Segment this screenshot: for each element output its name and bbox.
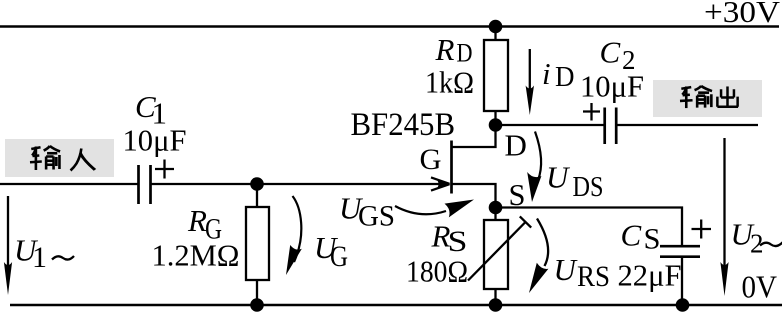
hanzi: chu (output) — [717, 86, 738, 106]
node: RG bottom at 0V rail — [250, 298, 264, 312]
svg-text:R: R — [187, 203, 207, 238]
svg-text:D: D — [555, 61, 575, 93]
svg-text:D: D — [457, 39, 473, 68]
svg-text:BF245B: BF245B — [351, 107, 456, 143]
svg-text:10μF: 10μF — [580, 69, 644, 104]
svg-text:i: i — [542, 56, 551, 91]
svg-text:S: S — [644, 223, 661, 256]
CS polarity plus sign — [692, 220, 712, 239]
label U2~ — [731, 217, 782, 259]
label UGS — [339, 191, 395, 233]
svg-text:22μF: 22μF — [618, 258, 682, 293]
label CS — [621, 218, 661, 256]
label C2 — [600, 35, 636, 76]
svg-text:180Ω: 180Ω — [406, 254, 468, 289]
svg-text:RS: RS — [577, 260, 610, 293]
label box: input terminal — [5, 139, 114, 177]
svg-text:C: C — [621, 218, 642, 253]
label URS — [554, 252, 611, 293]
svg-text:S: S — [509, 177, 526, 212]
wire: RS top lead — [494, 208, 496, 221]
svg-text:1: 1 — [32, 241, 47, 274]
svg-text:U: U — [546, 160, 571, 195]
label UG — [314, 230, 348, 273]
wire: C1 to gate of JFET — [151, 183, 448, 185]
arrow UGS arc — [395, 200, 474, 218]
svg-text:C: C — [600, 35, 621, 70]
wire: CS bottom lead — [681, 257, 683, 305]
svg-text:0V: 0V — [742, 269, 778, 305]
transistor Q1 BF245B channel bar — [450, 141, 453, 194]
wire: drain lead of Q1 — [452, 124, 496, 147]
label C1 — [135, 89, 167, 131]
label iD — [542, 56, 575, 93]
C1 polarity plus sign — [155, 160, 174, 179]
arrow URS arc — [529, 219, 548, 294]
wire: RD bottom lead — [494, 111, 496, 125]
label U1~ — [14, 233, 74, 275]
wire: RD top lead — [494, 27, 496, 41]
svg-text:U: U — [554, 252, 579, 287]
node: RS bottom at 0V rail — [489, 298, 503, 312]
wire: input line from left edge to C1 — [0, 183, 139, 185]
gate arrowhead into channel — [431, 177, 451, 190]
hanzi: ru (input) — [71, 149, 97, 171]
RS trimmer diagonal stroke — [468, 222, 526, 281]
wire: C2 to output terminal — [616, 124, 758, 126]
label RD — [435, 32, 473, 68]
capacitor C1 plates — [139, 165, 151, 204]
node: gate wire / RG top junction — [250, 177, 264, 191]
svg-text:10μF: 10μF — [123, 123, 187, 158]
wire: RS bottom lead — [494, 289, 496, 305]
arrow UG arc — [286, 196, 302, 275]
arrow U2 output voltage — [720, 138, 728, 296]
capacitor C2 plates — [605, 108, 617, 145]
svg-text:1kΩ: 1kΩ — [425, 65, 474, 100]
svg-text:GS: GS — [358, 200, 395, 233]
svg-text:R: R — [435, 32, 455, 67]
wire: RG top lead — [256, 184, 258, 207]
wire: RG bottom lead — [256, 280, 258, 305]
svg-text:1.2MΩ: 1.2MΩ — [152, 238, 240, 273]
wire: 0V bottom rail — [10, 304, 782, 307]
svg-text:G: G — [420, 143, 442, 176]
label RG — [187, 203, 222, 246]
node: drain node — [489, 118, 503, 132]
arrow UDS arc — [527, 132, 541, 203]
resistor RS body (adjustable) — [484, 220, 508, 289]
label box: output terminal — [653, 80, 762, 117]
arrow U1 input voltage — [4, 196, 12, 295]
wire: source lead of Q1 — [452, 184, 496, 208]
svg-text:DS: DS — [573, 171, 604, 203]
svg-text:D: D — [505, 128, 527, 163]
node: source node — [489, 201, 503, 215]
svg-text:+30V: +30V — [704, 0, 781, 29]
wire: drain to C2 output wire — [496, 124, 604, 126]
hanzi: shu (output) — [680, 86, 712, 108]
C2 polarity plus sign — [583, 103, 600, 121]
hanzi: shu (input) — [30, 146, 60, 170]
node: +30V rail to RD junction — [489, 20, 503, 34]
capacitor CS plates — [660, 246, 700, 257]
current arrow iD — [526, 49, 534, 115]
label RS — [431, 219, 468, 259]
RS trimmer tee bar — [520, 216, 531, 227]
resistor RD body — [484, 40, 508, 111]
label UDS — [546, 160, 604, 204]
wire: +30V top supply rail — [0, 25, 779, 28]
node: CS bottom at 0V rail — [676, 298, 690, 312]
resistor RG body — [246, 207, 269, 280]
wire: source to CS branch — [496, 208, 683, 247]
svg-text:G: G — [330, 240, 348, 273]
